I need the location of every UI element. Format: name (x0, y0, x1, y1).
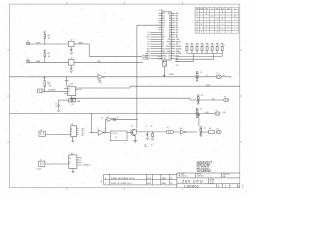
svg-text:U5: U5 (68, 85, 70, 87)
svg-text:RESET: RESET (166, 46, 171, 48)
svg-text:NMIIN: NMIIN (36, 61, 40, 63)
wire row4 (201, 131, 209, 133)
svg-text:P4: P4 (167, 128, 169, 130)
inverter U4D (176, 128, 197, 134)
svg-text:NMI 20M: NMI 20M (142, 57, 148, 59)
resistor network RP1 pull-ups (186, 44, 226, 54)
border frame (7, 2, 242, 190)
crystal Y1 (69, 96, 81, 106)
svg-text:IN: IN (68, 91, 69, 93)
svg-text:D6: D6 (148, 34, 150, 36)
wire U4B out (105, 119, 110, 133)
svg-text:XTAL: XTAL (77, 100, 81, 103)
svg-text:A0 X: A0 X (82, 127, 85, 130)
svg-text:PIN: PIN (196, 8, 198, 10)
svg-text:M1: M1 (169, 44, 171, 46)
svg-text:NC: NC (80, 89, 82, 91)
svg-text:RST 1.2M: RST 1.2M (142, 55, 149, 57)
svg-text:47: 47 (218, 45, 220, 47)
ground Q1 (133, 141, 137, 143)
svg-text:12: 12 (222, 11, 224, 13)
svg-text:INT: INT (162, 48, 165, 50)
svg-text:RE 41-361-46: RE 41-361-46 (179, 176, 187, 178)
label sheet row (218, 185, 240, 188)
ground below C7 (146, 138, 149, 140)
svg-text:L00001: L00001 (184, 184, 200, 189)
svg-text:5V: 5V (206, 75, 208, 77)
connector J8 (216, 128, 221, 133)
notes fine print block (197, 161, 213, 173)
label U8 output (83, 164, 91, 166)
svg-text:SHT: SHT (230, 185, 233, 187)
svg-text:D2: D2 (148, 39, 150, 41)
svg-text:FB1: FB1 (209, 128, 212, 130)
svg-text:D5: D5 (162, 32, 164, 34)
label below J4 (36, 169, 41, 171)
svg-text:D7: D7 (148, 41, 150, 43)
svg-text:R9: R9 (151, 126, 153, 128)
svg-text:U2: U2 (71, 58, 73, 60)
svg-text:1: 1 (97, 73, 98, 75)
svg-text:CLK: CLK (176, 65, 179, 67)
svg-text:D0: D0 (162, 44, 164, 46)
svg-text:U4D: U4D (180, 128, 183, 130)
svg-text:MREQ: MREQ (162, 56, 167, 58)
svg-text:12: 12 (196, 29, 198, 31)
junction box U1 bottom (163, 60, 167, 66)
svg-text:B 2.4: B 2.4 (158, 58, 161, 60)
wire pull-up bus y53.4 (187, 53, 222, 61)
svg-text:R11: R11 (48, 35, 51, 37)
svg-text:D5: D5 (148, 32, 150, 34)
svg-text:SIG NO: SIG NO (199, 8, 204, 10)
svg-text:C4: C4 (55, 103, 57, 105)
svg-text:1.4: 1.4 (234, 8, 236, 10)
resistor R1 pull-up (43, 30, 50, 44)
label net 5.8M (204, 112, 209, 114)
wire P3 to U2B (30, 61, 69, 63)
capacitor C2 (70, 65, 73, 70)
svg-text:R12: R12 (48, 53, 51, 55)
svg-text:RESET: RESET (176, 46, 181, 48)
svg-text:MFR 815.21: MFR 815.21 (223, 174, 230, 176)
svg-text:2.4M: 2.4M (227, 8, 230, 10)
IC U6 (71, 124, 79, 136)
svg-text:C: C (71, 134, 72, 136)
capacitor C1 (70, 47, 73, 52)
capacitor C15 rail (199, 127, 206, 137)
svg-text:Z80 CPU: Z80 CPU (182, 178, 204, 183)
svg-text:DRW OF FREE 8CO: DRW OF FREE 8CO (111, 183, 132, 185)
svg-text:FINAL RELEASE W/CO: FINAL RELEASE W/CO (111, 177, 136, 180)
svg-text:NMI: NMI (98, 61, 101, 63)
svg-text:47uF: 47uF (144, 146, 147, 148)
svg-text:A10: A10 (168, 12, 171, 15)
label net 6.8u (212, 98, 215, 100)
svg-text:CPU: CPU (205, 8, 208, 10)
wire vertical bus x136.9 (136, 25, 137, 128)
svg-text:EN: EN (69, 162, 71, 164)
capacitor C4 to ground (55, 100, 60, 110)
wire U8 ground stub (72, 169, 75, 173)
svg-text:2: 2 (105, 73, 106, 75)
svg-text:BUSRQ: BUSRQ (165, 48, 171, 50)
wire P1 to U2 (30, 43, 69, 45)
wire U6 ground stub (71, 137, 74, 142)
svg-text:INT: INT (147, 48, 150, 50)
svg-text:OS: OS (68, 89, 70, 91)
svg-text:4.1: 4.1 (223, 75, 225, 77)
svg-text:.1u: .1u (55, 106, 57, 108)
svg-text:A10: A10 (176, 12, 179, 15)
svg-text:CLK 2.5M: CLK 2.5M (142, 59, 149, 61)
wire J4 to U8 (45, 163, 69, 165)
svg-text:1 3B: 1 3B (159, 10, 164, 12)
svg-text:A5: A5 (102, 117, 104, 120)
svg-text:R24: R24 (43, 77, 46, 79)
transistor Q1 (131, 125, 137, 135)
svg-text:C14: C14 (200, 109, 203, 111)
svg-text:C24: C24 (71, 104, 74, 106)
wire U2B out to U1 (74, 61, 143, 63)
svg-text:31: 31 (196, 24, 198, 26)
svg-text:C13: C13 (201, 95, 204, 97)
svg-text:1.2: 1.2 (211, 8, 213, 10)
svg-text:47: 47 (223, 45, 225, 47)
svg-text:47: 47 (188, 45, 190, 47)
svg-text:12: 12 (201, 24, 203, 26)
svg-text:SC 2/1: SC 2/1 (210, 182, 214, 184)
IC U2B buffer (67, 58, 76, 65)
wire PHI drop to U4B (91, 113, 92, 133)
resistor R24 osc pull-up (43, 76, 51, 92)
svg-text:6.8u: 6.8u (212, 98, 215, 100)
svg-text:C9: C9 (144, 144, 146, 146)
svg-text:12: 12 (196, 21, 198, 23)
inverter U4B (97, 128, 106, 136)
svg-text:47: 47 (208, 45, 210, 47)
wire net PHI horizontal y113.6 (10, 113, 216, 115)
svg-text:8/29: 8/29 (147, 183, 151, 185)
svg-text:U4A: U4A (98, 79, 101, 82)
svg-text:GND: GND (176, 39, 180, 41)
connector P3 (27, 59, 30, 63)
resistor R9 to ground (151, 126, 154, 146)
svg-text:47: 47 (213, 45, 215, 47)
svg-text:31: 31 (206, 13, 208, 15)
svg-text:12: 12 (222, 19, 224, 21)
svg-text:RESET: RESET (169, 74, 174, 76)
svg-text:A: A (101, 180, 103, 183)
wire bus to U1 right pins (175, 56, 222, 61)
svg-text:1/4W: 1/4W (47, 84, 51, 86)
wire Q1 collector out (137, 131, 166, 132)
connector J5 (216, 73, 225, 78)
svg-text:U2: U2 (71, 40, 73, 42)
svg-text:D1: D1 (162, 46, 164, 48)
label U6 outputs (82, 127, 85, 137)
IC U2 buffer (67, 40, 76, 47)
ground below C1 (70, 52, 73, 54)
squiggle right of title (241, 184, 244, 188)
svg-text:A7-0: A7-0 (221, 7, 224, 10)
svg-text:SIZE A: SIZE A (210, 178, 214, 181)
label RESET (169, 74, 174, 76)
connector J3 mid (39, 129, 45, 136)
svg-text:NO. 4009: NO. 4009 (179, 174, 185, 176)
wire U1 clock down (164, 66, 166, 77)
svg-text:7404: 7404 (98, 82, 101, 84)
svg-text:AOUT: AOUT (206, 84, 210, 87)
IC U5 oscillator (64, 82, 82, 95)
wire net CLKOUT horizontal y76.8 (10, 76, 231, 78)
connector J4 bottom (39, 159, 45, 166)
svg-text:CODE 8041: CODE 8041 (197, 176, 204, 178)
wire net OSC1 horizontal y87 (76, 86, 240, 88)
svg-text:RESET: RESET (79, 42, 84, 44)
wire U2 out to U1 (74, 42, 142, 56)
svg-text:IORQ: IORQ (162, 58, 167, 60)
wire net XOUT horizontal y98 (70, 98, 224, 100)
svg-text:NMI: NMI (162, 51, 165, 53)
svg-text:2.4576 MHZ: 2.4576 MHZ (48, 90, 55, 92)
svg-text:1.45DS: 1.45DS (36, 169, 41, 171)
wire J3 to U6 (45, 133, 71, 135)
svg-text:GND: GND (216, 8, 219, 10)
svg-text:31: 31 (234, 16, 236, 18)
svg-text:CK: CK (69, 158, 71, 160)
wire Q1 emitter to ground (135, 129, 136, 141)
wire CLK to CPU y25 (137, 24, 162, 26)
svg-text:47: 47 (193, 45, 195, 47)
svg-text:C12: C12 (200, 72, 203, 74)
svg-text:31: 31 (196, 32, 198, 34)
svg-text:BUSRQ: BUSRQ (176, 48, 182, 50)
svg-text:SIZE B: SIZE B (197, 174, 201, 176)
IC U1 Z80 CPU (145, 10, 183, 60)
svg-text:1.4MHZ 05: 1.4MHZ 05 (83, 164, 91, 166)
connector P1 (27, 41, 30, 45)
svg-text:B: B (71, 131, 72, 133)
svg-text:10K: 10K (48, 56, 50, 58)
label net 5V row1 (206, 75, 208, 77)
wire U6 to U4B (89, 132, 98, 133)
svg-text:C15: C15 (203, 127, 206, 129)
svg-text:VCC: VCC (162, 37, 166, 39)
label drawing number L00001 (184, 184, 200, 189)
IC U8 (69, 153, 82, 168)
ground below C2 (70, 71, 73, 73)
svg-text:JWM: JWM (161, 183, 166, 185)
resistor R2 pull-up (43, 49, 50, 63)
wire crystal left (59, 99, 69, 101)
svg-text:U8: U8 (71, 153, 73, 155)
svg-text:8/79: 8/79 (147, 178, 151, 180)
svg-text:1 AB: 1 AB (70, 82, 73, 85)
title block frame (177, 173, 240, 188)
connector P4 osc (38, 89, 44, 93)
svg-text:RESIN: RESIN (36, 43, 40, 45)
svg-text:D0: D0 (148, 44, 150, 46)
svg-text:RFSH: RFSH (167, 41, 171, 43)
svg-text:47: 47 (198, 45, 200, 47)
label CLK (176, 58, 179, 67)
svg-text:D4: D4 (162, 27, 164, 29)
svg-text:B4.7: B4.7 (176, 61, 179, 63)
svg-text:160: 160 (49, 85, 51, 87)
delay module DL1 (110, 131, 127, 141)
capacitor C14 rail (196, 108, 203, 118)
label net AOUT (206, 84, 210, 87)
svg-text:M1: M1 (176, 44, 178, 46)
svg-text:1K: 1K (151, 144, 153, 146)
wire row3 to row4 drop (198, 113, 199, 126)
svg-text:10K: 10K (48, 38, 50, 40)
svg-text:CLK: CLK (162, 25, 166, 27)
svg-text:A11: A11 (162, 12, 165, 15)
connector J7 (215, 110, 226, 115)
capacitor C13 rail (197, 95, 204, 105)
label nets at U1 lower left (142, 55, 149, 61)
svg-text:D7: D7 (162, 41, 164, 43)
svg-text:RFSH: RFSH (176, 41, 181, 43)
label title Z80 CPU (182, 178, 204, 183)
svg-text:FSCM: FSCM (210, 181, 214, 183)
svg-text:4.7K: 4.7K (47, 82, 50, 84)
capacitor C7 to ground (144, 126, 148, 148)
connector J6 (224, 96, 229, 101)
ferrite FB1 (209, 128, 214, 134)
wire crystal net y91.3 (43, 90, 68, 92)
ground below C4 (57, 110, 60, 112)
svg-text:C7: C7 (145, 126, 147, 128)
svg-text:D3: D3 (162, 30, 164, 32)
svg-text:A: A (71, 127, 72, 130)
ground below R9 (151, 138, 154, 140)
svg-text:12: 12 (216, 32, 218, 34)
svg-text:U6: U6 (71, 124, 73, 126)
inverter U4C (102, 117, 137, 122)
svg-text:D2: D2 (162, 39, 164, 41)
connector P4 (166, 128, 175, 134)
svg-text:VCC: VCC (146, 37, 150, 39)
svg-text:KIMI: KIMI (223, 176, 226, 178)
svg-text:JWM: JWM (161, 178, 166, 180)
svg-text:NMI: NMI (147, 51, 150, 53)
label bus lower left of U1 (158, 55, 161, 60)
inverter U4A (97, 73, 106, 84)
power VCC to U5 (65, 76, 69, 87)
svg-text:Q1: Q1 (131, 125, 133, 127)
svg-text:C21: C21 (115, 137, 118, 139)
svg-text:1 2T 1/16: 1 2T 1/16 (112, 133, 118, 135)
table pin assignment (195, 7, 239, 33)
wire DL1 to Q1 (127, 132, 134, 134)
svg-text:47: 47 (203, 45, 205, 47)
svg-text:C8: C8 (117, 117, 119, 119)
svg-text:0.5M: 0.5M (223, 112, 227, 114)
table revision history (101, 174, 177, 185)
capacitor C12 rail (196, 71, 203, 81)
